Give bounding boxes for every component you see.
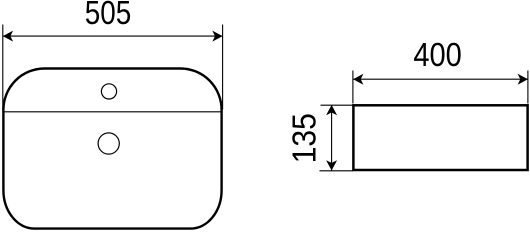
svg-text:505: 505 xyxy=(85,0,132,32)
svg-text:135: 135 xyxy=(287,113,324,163)
svg-text:400: 400 xyxy=(413,37,462,74)
